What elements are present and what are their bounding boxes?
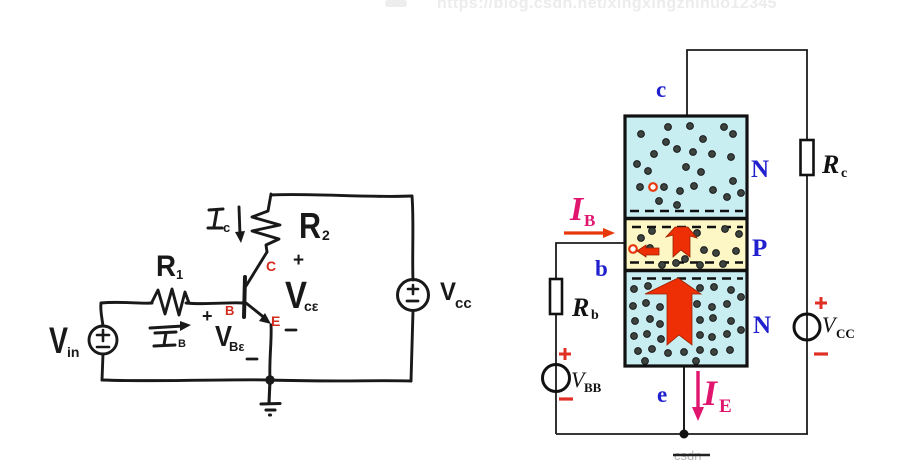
source Vcc minus <box>407 300 418 303</box>
watermark csdn bottom <box>673 448 710 463</box>
arrowhead IB <box>180 321 191 331</box>
svg-text:E: E <box>719 396 732 417</box>
label VCE <box>285 275 319 317</box>
svg-text:https://blog.csdn.net/xingxing: https://blog.csdn.net/xingxingzhihuo1234… <box>437 0 777 12</box>
wire right branch vertical <box>806 50 808 434</box>
svg-text:BB: BB <box>584 380 602 395</box>
ground <box>261 380 280 415</box>
wire Vin left vertical <box>101 303 103 326</box>
wire base (Vin top to base) <box>101 302 243 303</box>
arrowhead emitter <box>259 313 271 324</box>
source VCC circle <box>794 314 820 340</box>
svg-text:c: c <box>656 77 666 102</box>
arrow IB red <box>564 231 606 234</box>
resistor R1 <box>152 289 189 315</box>
svg-text:1: 1 <box>176 267 183 282</box>
dashed depletion line P top <box>632 226 743 228</box>
svg-text:CC: CC <box>836 326 855 341</box>
svg-text:R: R <box>571 293 589 322</box>
region N top (collector) <box>626 117 746 218</box>
wire Vcc bottom <box>411 311 413 381</box>
source Vin minus <box>97 346 109 349</box>
electron dots N bottom <box>630 283 745 365</box>
junction dot emitter-bottom <box>265 375 274 384</box>
label Ic <box>208 209 230 235</box>
wire Vin bottom <box>102 354 103 380</box>
minus VBB <box>559 397 573 400</box>
wire Vcc right vertical <box>412 196 413 280</box>
svg-text:R: R <box>299 205 321 246</box>
svg-text:B: B <box>178 338 186 350</box>
svg-text:N: N <box>753 312 771 339</box>
label IB <box>154 332 186 350</box>
electron dots N top <box>634 123 745 209</box>
svg-text:c: c <box>223 220 230 235</box>
label VBB <box>571 367 602 395</box>
label R2 <box>299 205 330 246</box>
wire bottom <box>102 380 411 381</box>
resistor Rb <box>550 279 562 314</box>
source VBB circle <box>543 365 570 392</box>
wire collector top <box>687 50 807 115</box>
svg-text:C: C <box>266 258 276 274</box>
svg-text:R: R <box>821 150 839 179</box>
svg-text:c: c <box>841 166 847 181</box>
svg-text:2: 2 <box>322 227 330 243</box>
block border <box>625 116 747 366</box>
label IE magenta <box>702 373 732 417</box>
label VCE minus <box>286 329 296 332</box>
label R1 <box>156 250 183 283</box>
arrow small red left P <box>637 245 659 257</box>
source Vin circle <box>89 326 117 354</box>
svg-text:cc: cc <box>455 295 472 312</box>
source Vcc plus <box>408 285 418 294</box>
svg-text:I: I <box>702 373 719 413</box>
label Vin <box>49 320 79 361</box>
dashed depletion line N bottom <box>632 277 743 279</box>
label Rb <box>571 293 599 323</box>
region N bottom (emitter) <box>626 271 746 366</box>
svg-text:I: I <box>569 191 585 228</box>
svg-text:e: e <box>657 382 667 407</box>
svg-text:B: B <box>225 303 234 318</box>
svg-text:cε: cε <box>304 298 319 314</box>
region P (base) <box>626 219 746 270</box>
wire emitter down <box>683 367 685 434</box>
junction line P-N <box>624 269 748 272</box>
junction dot bottom <box>680 430 689 439</box>
hole red circle N top <box>649 183 657 191</box>
svg-text:in: in <box>67 344 79 360</box>
transistor Q1 base bar <box>244 277 245 317</box>
transistor Q1 emitter wire <box>246 303 266 319</box>
transistor Q1 collector wire <box>246 252 267 286</box>
svg-text:+: + <box>293 250 304 271</box>
resistor R2 <box>252 194 280 252</box>
svg-text:N: N <box>751 156 769 183</box>
wire bottom <box>556 433 808 435</box>
wire top (R2 top to Vcc top) <box>271 195 412 197</box>
svg-text:P: P <box>752 235 767 262</box>
svg-text:E: E <box>271 313 280 329</box>
wire emitter down <box>270 325 271 380</box>
plus VBB <box>559 348 571 360</box>
hole red circle P <box>629 245 637 253</box>
electron dots P <box>638 226 743 269</box>
label Rc <box>821 150 847 181</box>
wire base left branch <box>556 243 624 434</box>
svg-text:B: B <box>584 211 595 230</box>
source Vin plus <box>97 330 109 341</box>
label VBE minus <box>247 358 257 361</box>
svg-text:+: + <box>202 306 213 326</box>
dashed depletion line P bottom <box>630 261 743 263</box>
watermark url top <box>385 0 777 12</box>
svg-text:V: V <box>440 278 456 306</box>
source Vcc circle <box>398 280 429 311</box>
svg-text:V: V <box>49 320 68 361</box>
label VBE <box>215 321 245 354</box>
plus VCC <box>815 297 827 309</box>
svg-text:b: b <box>595 256 608 281</box>
junction line N-P <box>624 217 748 220</box>
label IB magenta <box>569 191 595 230</box>
label VCC <box>822 312 855 341</box>
svg-text:Bε: Bε <box>229 339 245 354</box>
arrow IE magenta <box>696 371 699 410</box>
dashed depletion line N top <box>630 210 743 212</box>
arrow red up P <box>666 227 697 257</box>
arrow IB <box>150 326 183 328</box>
svg-text:b: b <box>591 308 599 323</box>
arrowhead Ic <box>235 231 245 243</box>
arrow red up N bottom <box>645 278 701 345</box>
arrow Ic <box>239 207 240 235</box>
minus VCC <box>814 352 828 355</box>
resistor Rc <box>801 140 814 175</box>
svg-text:R: R <box>156 250 176 283</box>
label Vcc <box>440 278 472 312</box>
